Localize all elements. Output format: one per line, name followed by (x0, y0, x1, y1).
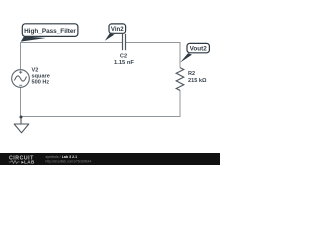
svg-text:1.15 nF: 1.15 nF (114, 60, 134, 66)
watermark strip (0, 153, 220, 165)
junction dot (20, 116, 23, 119)
resistor R2 (176, 68, 184, 91)
wire left vertical upper: junction down to V2 top (20, 42, 22, 70)
wire right vertical upper: corner to R2 top (179, 42, 181, 68)
svg-text:▸LAB: ▸LAB (21, 160, 35, 165)
svg-text:http:∕∕circuitlab.com∕c∕76n26f: http:∕∕circuitlab.com∕c∕76n26fk44 (46, 159, 92, 163)
R2 labels (188, 71, 207, 84)
svg-text:500 Hz: 500 Hz (32, 80, 50, 86)
svg-text:Vout2: Vout2 (190, 46, 208, 53)
circuitlab logo (9, 155, 35, 164)
svg-text:C2: C2 (120, 54, 127, 60)
voltage source V2 (12, 70, 30, 88)
flag High_Pass_Filter (21, 24, 78, 42)
C2 labels (114, 54, 134, 67)
wire top-right: capacitor right plate to right corner (126, 42, 181, 44)
wire left vertical lower: V2 bottom to ground junction (20, 87, 22, 117)
svg-text:High_Pass_Filter: High_Pass_Filter (24, 28, 76, 35)
svg-text:Vin2: Vin2 (111, 26, 124, 33)
flag Vout2 (180, 43, 209, 62)
capacitor C2 (123, 34, 126, 50)
wire bottom: ground junction to bottom-right corner (20, 116, 181, 118)
wire right vertical lower: R2 bottom to bottom corner (179, 90, 181, 117)
svg-text:R2: R2 (188, 71, 195, 77)
svg-text:symbols / Lab 3 2.1: symbols / Lab 3 2.1 (46, 155, 78, 159)
svg-text:V2: V2 (32, 68, 39, 74)
ground (14, 118, 29, 133)
V2 labels (32, 68, 50, 86)
flag Vin2 (105, 24, 126, 41)
wire top-left: junction to capacitor left plate (20, 42, 122, 44)
svg-text:215 kΩ: 215 kΩ (188, 78, 207, 84)
